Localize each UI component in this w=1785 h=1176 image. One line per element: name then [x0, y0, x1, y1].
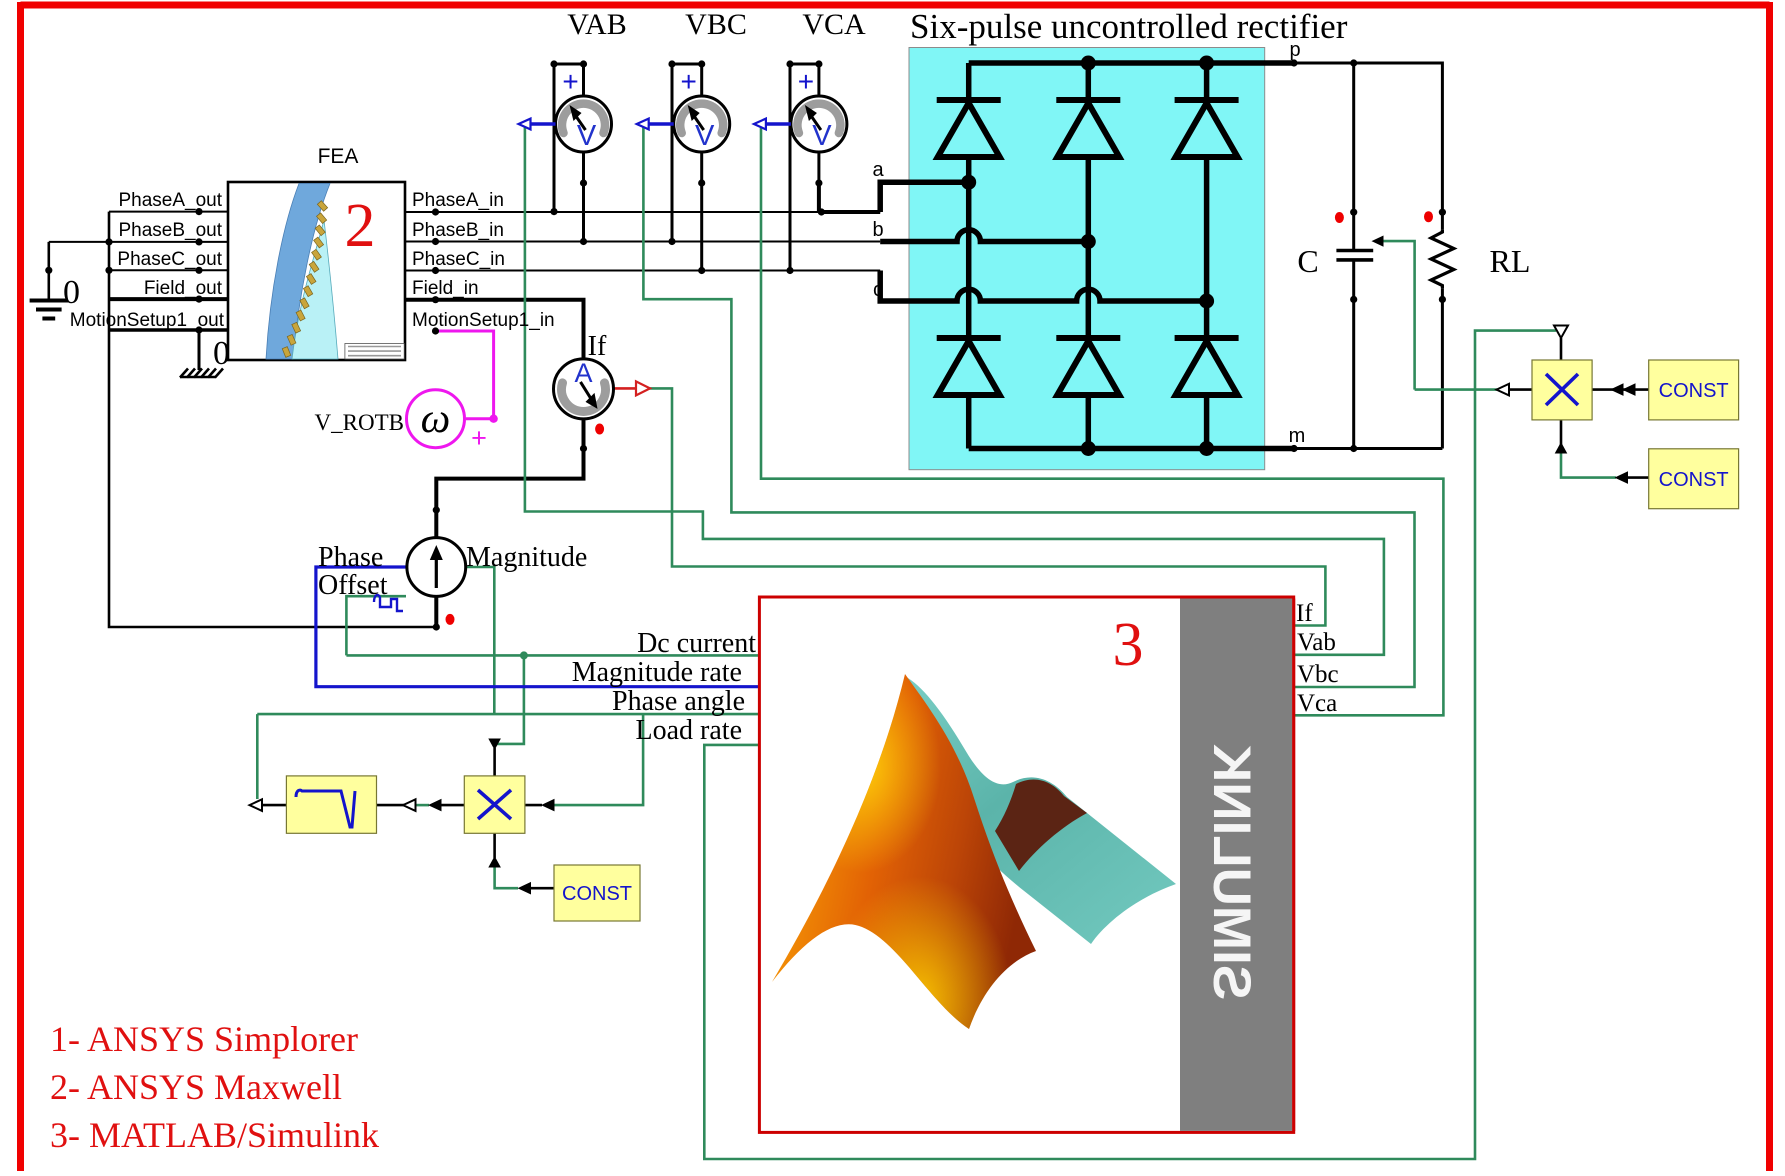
svg-text:p: p — [1289, 39, 1300, 61]
svg-text:Vca: Vca — [1297, 690, 1337, 717]
svg-text:VBC: VBC — [685, 8, 747, 41]
svg-text:If: If — [588, 331, 607, 362]
svg-text:+: + — [681, 66, 697, 97]
svg-text:b: b — [872, 219, 883, 241]
svg-text:Field_out: Field_out — [144, 278, 223, 299]
svg-text:MotionSetup1_out: MotionSetup1_out — [70, 310, 225, 331]
svg-text:PhaseC_in: PhaseC_in — [412, 249, 505, 270]
svg-text:A: A — [574, 358, 592, 388]
svg-text:RL: RL — [1490, 243, 1531, 279]
svg-text:PhaseA_out: PhaseA_out — [118, 190, 222, 211]
svg-text:Phase angle: Phase angle — [612, 686, 745, 717]
svg-text:+: + — [471, 423, 487, 453]
svg-text:PhaseB_in: PhaseB_in — [412, 220, 504, 241]
svg-text:SIMULINK: SIMULINK — [1202, 744, 1261, 1000]
svg-text:2: 2 — [345, 192, 376, 260]
svg-text:0: 0 — [213, 335, 230, 372]
svg-text:Magnitude rate: Magnitude rate — [572, 657, 742, 688]
svg-text:If: If — [1296, 600, 1313, 627]
svg-text:FEA: FEA — [318, 145, 359, 168]
svg-text:m: m — [1289, 425, 1306, 447]
svg-text:VAB: VAB — [567, 8, 626, 41]
svg-text:VCA: VCA — [802, 8, 866, 41]
svg-text:3- MATLAB/Simulink: 3- MATLAB/Simulink — [50, 1115, 379, 1155]
svg-text:Phase: Phase — [318, 542, 383, 573]
svg-text:2- ANSYS Maxwell: 2- ANSYS Maxwell — [50, 1067, 342, 1107]
svg-text:CONST: CONST — [1659, 380, 1729, 402]
svg-text:1- ANSYS Simplorer: 1- ANSYS Simplorer — [50, 1019, 358, 1059]
svg-text:Six-pulse uncontrolled rectifi: Six-pulse uncontrolled rectifier — [910, 7, 1348, 46]
svg-text:ω: ω — [421, 396, 451, 442]
svg-text:PhaseC_out: PhaseC_out — [117, 249, 222, 270]
svg-text:0: 0 — [63, 274, 80, 311]
svg-text:CONST: CONST — [562, 883, 632, 905]
svg-text:CONST: CONST — [1659, 469, 1729, 491]
svg-text:Offset: Offset — [318, 570, 388, 601]
svg-text:Field_in: Field_in — [412, 278, 479, 299]
svg-text:C: C — [1297, 243, 1318, 279]
svg-text:+: + — [562, 66, 578, 97]
svg-text:3: 3 — [1113, 611, 1144, 679]
svg-text:+: + — [798, 66, 814, 97]
svg-text:c: c — [873, 279, 883, 301]
svg-text:Vbc: Vbc — [1297, 661, 1339, 688]
svg-text:a: a — [872, 159, 884, 181]
svg-text:Vab: Vab — [1297, 629, 1336, 656]
svg-text:PhaseA_in: PhaseA_in — [412, 190, 504, 211]
svg-text:Dc current: Dc current — [637, 628, 756, 659]
svg-text:Load rate: Load rate — [636, 715, 743, 746]
svg-text:MotionSetup1_in: MotionSetup1_in — [412, 310, 555, 331]
svg-text:V_ROTB: V_ROTB — [315, 410, 404, 435]
svg-text:PhaseB_out: PhaseB_out — [118, 220, 222, 241]
svg-text:Magnitude: Magnitude — [466, 542, 587, 573]
